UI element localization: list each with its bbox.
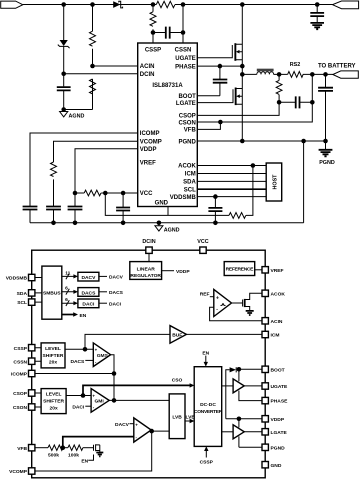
- svg-text:CSO: CSO: [172, 378, 183, 384]
- svg-text:HOST: HOST: [273, 174, 279, 190]
- svg-text:ACIN: ACIN: [271, 319, 283, 325]
- svg-text:DCIN: DCIN: [140, 72, 155, 78]
- svg-text:GMI: GMI: [95, 399, 105, 405]
- svg-text:UGATE: UGATE: [271, 384, 288, 390]
- svg-text:LVB: LVB: [172, 414, 182, 420]
- svg-text:CSSN: CSSN: [13, 359, 27, 365]
- svg-text:VDDP: VDDP: [271, 417, 285, 423]
- svg-text:LGATE: LGATE: [176, 101, 196, 107]
- svg-text:LGATE: LGATE: [271, 430, 288, 436]
- svg-text:DACV: DACV: [109, 275, 124, 281]
- svg-text:EN: EN: [81, 458, 88, 464]
- svg-text:DACS: DACS: [70, 359, 85, 365]
- svg-text:LEVEL: LEVEL: [45, 346, 61, 352]
- svg-text:TO BATTERY: TO BATTERY: [318, 63, 356, 69]
- svg-text:SDA: SDA: [183, 180, 196, 186]
- svg-text:CSSP: CSSP: [145, 48, 161, 54]
- svg-text:DCIN: DCIN: [142, 239, 155, 245]
- svg-text:BOOT: BOOT: [271, 367, 285, 373]
- svg-text:CONVERTER: CONVERTER: [194, 409, 223, 415]
- svg-text:VFB: VFB: [17, 446, 27, 452]
- svg-text:20x: 20x: [50, 405, 58, 411]
- svg-text:PGND: PGND: [319, 160, 335, 166]
- svg-text:ISL88731A: ISL88731A: [152, 83, 183, 89]
- svg-text:SCL: SCL: [17, 300, 27, 306]
- svg-text:SDA: SDA: [17, 291, 28, 297]
- svg-text:BOOT: BOOT: [178, 94, 196, 100]
- svg-text:+: +: [92, 393, 95, 398]
- svg-text:LEVEL: LEVEL: [46, 392, 62, 398]
- svg-text:DACV: DACV: [115, 422, 130, 428]
- svg-text:EN: EN: [80, 313, 87, 319]
- svg-text:DACV: DACV: [81, 275, 96, 281]
- svg-text:REGULATOR: REGULATOR: [130, 273, 161, 279]
- svg-text:CSSN: CSSN: [175, 48, 192, 54]
- svg-text:DC-DC: DC-DC: [200, 402, 216, 408]
- svg-text:ACOK: ACOK: [271, 291, 286, 297]
- svg-text:ACOK: ACOK: [178, 164, 196, 170]
- svg-text:VDDP: VDDP: [140, 147, 157, 153]
- svg-text:+: +: [135, 422, 138, 427]
- svg-text:UGATE: UGATE: [175, 56, 196, 62]
- svg-text:RS2: RS2: [290, 62, 301, 68]
- svg-text:VREF: VREF: [140, 161, 156, 167]
- svg-text:VDDP: VDDP: [176, 269, 190, 275]
- svg-text:DACS: DACS: [109, 290, 124, 296]
- svg-text:20x: 20x: [49, 360, 57, 366]
- svg-text:DACI: DACI: [72, 405, 85, 411]
- svg-text:SHIFTER: SHIFTER: [43, 353, 64, 359]
- svg-text:GND: GND: [155, 200, 169, 206]
- svg-text:ICM: ICM: [185, 172, 196, 178]
- svg-text:AGND: AGND: [69, 114, 85, 120]
- svg-text:DACS: DACS: [81, 290, 96, 296]
- svg-text:VDDSMB: VDDSMB: [170, 195, 197, 201]
- svg-text:CSSP: CSSP: [14, 346, 28, 352]
- svg-text:VCOMP: VCOMP: [140, 140, 162, 146]
- svg-text:DACI: DACI: [109, 302, 122, 308]
- svg-text:ICOMP: ICOMP: [11, 372, 28, 378]
- svg-text:REFERENCE: REFERENCE: [226, 267, 255, 273]
- svg-text:PHASE: PHASE: [175, 64, 196, 70]
- svg-text:VDDSMB: VDDSMB: [6, 276, 28, 282]
- svg-text:CSON: CSON: [178, 120, 195, 126]
- svg-text:PHASE: PHASE: [271, 399, 289, 405]
- svg-text:6: 6: [65, 286, 68, 292]
- svg-text:ICM: ICM: [271, 333, 280, 339]
- svg-text:VCC: VCC: [140, 191, 153, 197]
- svg-text:VREF: VREF: [271, 268, 284, 274]
- svg-text:BUF: BUF: [172, 333, 182, 339]
- svg-text:SMBUS: SMBUS: [43, 291, 61, 297]
- svg-text:GMS: GMS: [97, 353, 109, 359]
- svg-text:SCL: SCL: [184, 187, 196, 193]
- svg-text:ACIN: ACIN: [140, 64, 155, 70]
- svg-text:CSON: CSON: [13, 405, 28, 411]
- svg-text:SHIFTER: SHIFTER: [43, 399, 64, 405]
- svg-text:CSOP: CSOP: [179, 114, 196, 120]
- svg-text:CSOP: CSOP: [13, 391, 28, 397]
- svg-text:VCOMP: VCOMP: [9, 469, 28, 475]
- svg-text:PGND: PGND: [271, 445, 286, 451]
- svg-text:VFB: VFB: [184, 128, 197, 134]
- svg-text:LINEAR: LINEAR: [137, 266, 156, 272]
- svg-text:VCC: VCC: [197, 239, 208, 245]
- svg-text:500k: 500k: [48, 452, 59, 458]
- svg-text:100k: 100k: [68, 452, 79, 458]
- svg-text:DACI: DACI: [82, 302, 95, 308]
- svg-text:+: +: [95, 348, 98, 353]
- svg-text:REF: REF: [200, 292, 210, 298]
- svg-text:ICOMP: ICOMP: [140, 131, 160, 137]
- svg-text:CSSP: CSSP: [200, 460, 214, 466]
- svg-text:AGND: AGND: [164, 228, 180, 234]
- svg-text:GND: GND: [271, 463, 282, 469]
- svg-text:EN: EN: [202, 350, 209, 356]
- svg-text:6: 6: [65, 297, 68, 303]
- svg-text:11: 11: [65, 270, 70, 276]
- svg-text:+: +: [216, 295, 219, 301]
- svg-text:PGND: PGND: [178, 139, 196, 145]
